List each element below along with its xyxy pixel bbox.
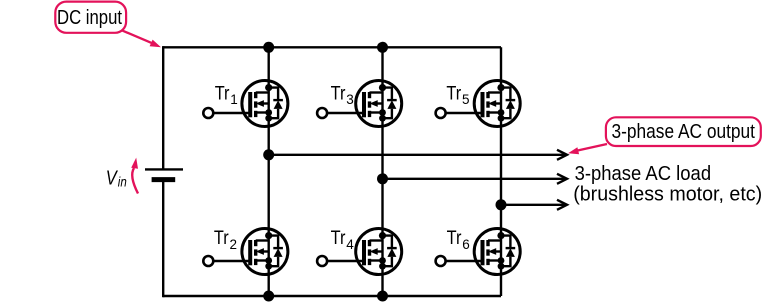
wire: phase leg U (Tr1/Tr2) <box>268 47 270 296</box>
transistor Tr6 (low-side N-MOSFET, phase W) <box>436 228 521 275</box>
wire: phase leg W (Tr5/Tr6) <box>500 47 502 296</box>
callout arrow: 3-phase AC output to phase U arrow <box>577 144 607 151</box>
callout box: DC input <box>55 2 126 33</box>
transistor Tr5 (high-side N-MOSFET, phase W) <box>436 80 521 127</box>
svg-text:3-phase AC load: 3-phase AC load <box>575 163 712 185</box>
wire: left rail upper segment (battery + to top bus) <box>162 46 164 169</box>
svg-text:3-phase AC output: 3-phase AC output <box>612 121 756 143</box>
V_in direction arrow (pink arc) <box>132 168 138 194</box>
svg-text:1: 1 <box>230 92 238 107</box>
svg-text:6: 6 <box>462 237 470 252</box>
svg-text:V: V <box>106 167 118 189</box>
callout arrow: DC input to top-left corner <box>122 30 154 43</box>
svg-text:in: in <box>118 174 127 190</box>
svg-text:(brushless motor, etc): (brushless motor, etc) <box>573 184 762 206</box>
wire: phase leg V (Tr3/Tr4) <box>381 47 383 296</box>
svg-text:Tr: Tr <box>331 228 346 249</box>
junction dot: leg W / output line <box>496 199 507 210</box>
svg-text:3: 3 <box>346 92 354 107</box>
junction dot: top bus / leg U <box>263 42 274 53</box>
svg-text:2: 2 <box>230 237 238 252</box>
wire: phase U output line with arrowhead <box>269 154 566 156</box>
transistor Tr2 (low-side N-MOSFET, phase U) <box>203 228 288 275</box>
svg-text:DC input: DC input <box>57 7 122 29</box>
junction dot: bottom bus / leg V <box>377 291 388 302</box>
svg-text:Tr: Tr <box>331 83 346 104</box>
svg-text:5: 5 <box>462 92 470 107</box>
svg-text:Tr: Tr <box>214 228 229 249</box>
wire: left rail lower segment (battery - to bottom bus) <box>162 182 164 297</box>
junction dot: bottom bus / leg U <box>263 291 274 302</box>
wire: phase V output line with arrowhead <box>383 178 567 180</box>
junction dot: leg U / output line <box>263 149 274 160</box>
wire: bottom DC- bus <box>163 295 501 297</box>
transistor Tr4 (low-side N-MOSFET, phase V) <box>317 228 402 275</box>
svg-text:Tr: Tr <box>215 83 230 104</box>
transistor Tr1 (high-side N-MOSFET, phase U) <box>203 80 288 127</box>
svg-text:Tr: Tr <box>447 228 462 249</box>
wire: phase W output line with arrowhead <box>501 204 566 206</box>
junction dot: leg V / output line <box>377 173 388 184</box>
battery V_in negative plate <box>152 177 176 182</box>
junction dot: top bus / leg V <box>377 42 388 53</box>
battery V_in (DC source) positive plate <box>145 168 183 170</box>
svg-text:Tr: Tr <box>446 83 461 104</box>
callout box: 3-phase AC output <box>606 117 761 146</box>
wire: top DC+ bus <box>163 46 501 48</box>
svg-text:4: 4 <box>346 237 354 252</box>
transistor Tr3 (high-side N-MOSFET, phase V) <box>317 80 402 127</box>
